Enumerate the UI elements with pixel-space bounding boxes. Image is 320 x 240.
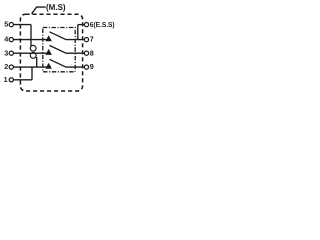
- svg-text:5: 5: [4, 20, 8, 29]
- wire pin 6 drop to pin 7 row: [77, 25, 79, 40]
- contact SW1 movable arm to pin 7: [49, 32, 84, 40]
- wire pin 1 riser up to pin 2 row: [31, 67, 33, 80]
- wire pin 5 horizontal: [14, 24, 31, 26]
- wire pin 6 horizontal: [78, 24, 84, 26]
- pin 5 terminal circle: [9, 23, 13, 27]
- coil winding lower loop: [30, 53, 36, 59]
- svg-text:7: 7: [90, 35, 94, 44]
- coil winding upper loop: [30, 45, 36, 51]
- svg-text:9: 9: [90, 62, 94, 71]
- contact SW2 movable arm to pin 8: [49, 45, 84, 53]
- pin 9 terminal circle: [84, 65, 88, 69]
- svg-text:8: 8: [90, 48, 94, 57]
- outer switch body M.S dashed box: [20, 14, 82, 91]
- pin 8 terminal circle: [84, 51, 88, 55]
- pin 6 terminal circle: [84, 23, 88, 27]
- contact SW3 movable arm to pin 9: [49, 59, 84, 67]
- contact SW1 fixed triangle (pin4 row): [46, 35, 52, 41]
- pin 7 terminal circle: [84, 38, 88, 42]
- wire pin 3 horizontal: [14, 52, 51, 54]
- wire pin 4 horizontal: [14, 39, 51, 41]
- inner contact block chain-line box: [43, 28, 75, 72]
- label (M.S) leader line: [32, 7, 46, 14]
- svg-text:3: 3: [4, 48, 8, 57]
- svg-text:6(E.S.S): 6(E.S.S): [90, 20, 115, 29]
- svg-text:1: 1: [4, 75, 8, 84]
- wire pin 2 horizontal: [14, 66, 51, 68]
- svg-text:4: 4: [4, 35, 8, 44]
- pin 2 terminal circle: [9, 65, 13, 69]
- pin 3 terminal circle: [9, 51, 13, 55]
- svg-text:2: 2: [4, 62, 8, 71]
- wire coil exit down to pin 2 row: [36, 57, 38, 67]
- contact SW3 fixed triangle (pin2 row): [46, 63, 52, 69]
- svg-text:(M.S): (M.S): [46, 2, 66, 12]
- pin 4 terminal circle: [9, 38, 13, 42]
- wire pin 1 horizontal: [14, 79, 32, 81]
- wire pin 5 riser down to coil: [30, 25, 32, 47]
- pin 1 terminal circle: [9, 78, 13, 82]
- contact SW2 fixed triangle (pin3 row): [46, 49, 52, 55]
